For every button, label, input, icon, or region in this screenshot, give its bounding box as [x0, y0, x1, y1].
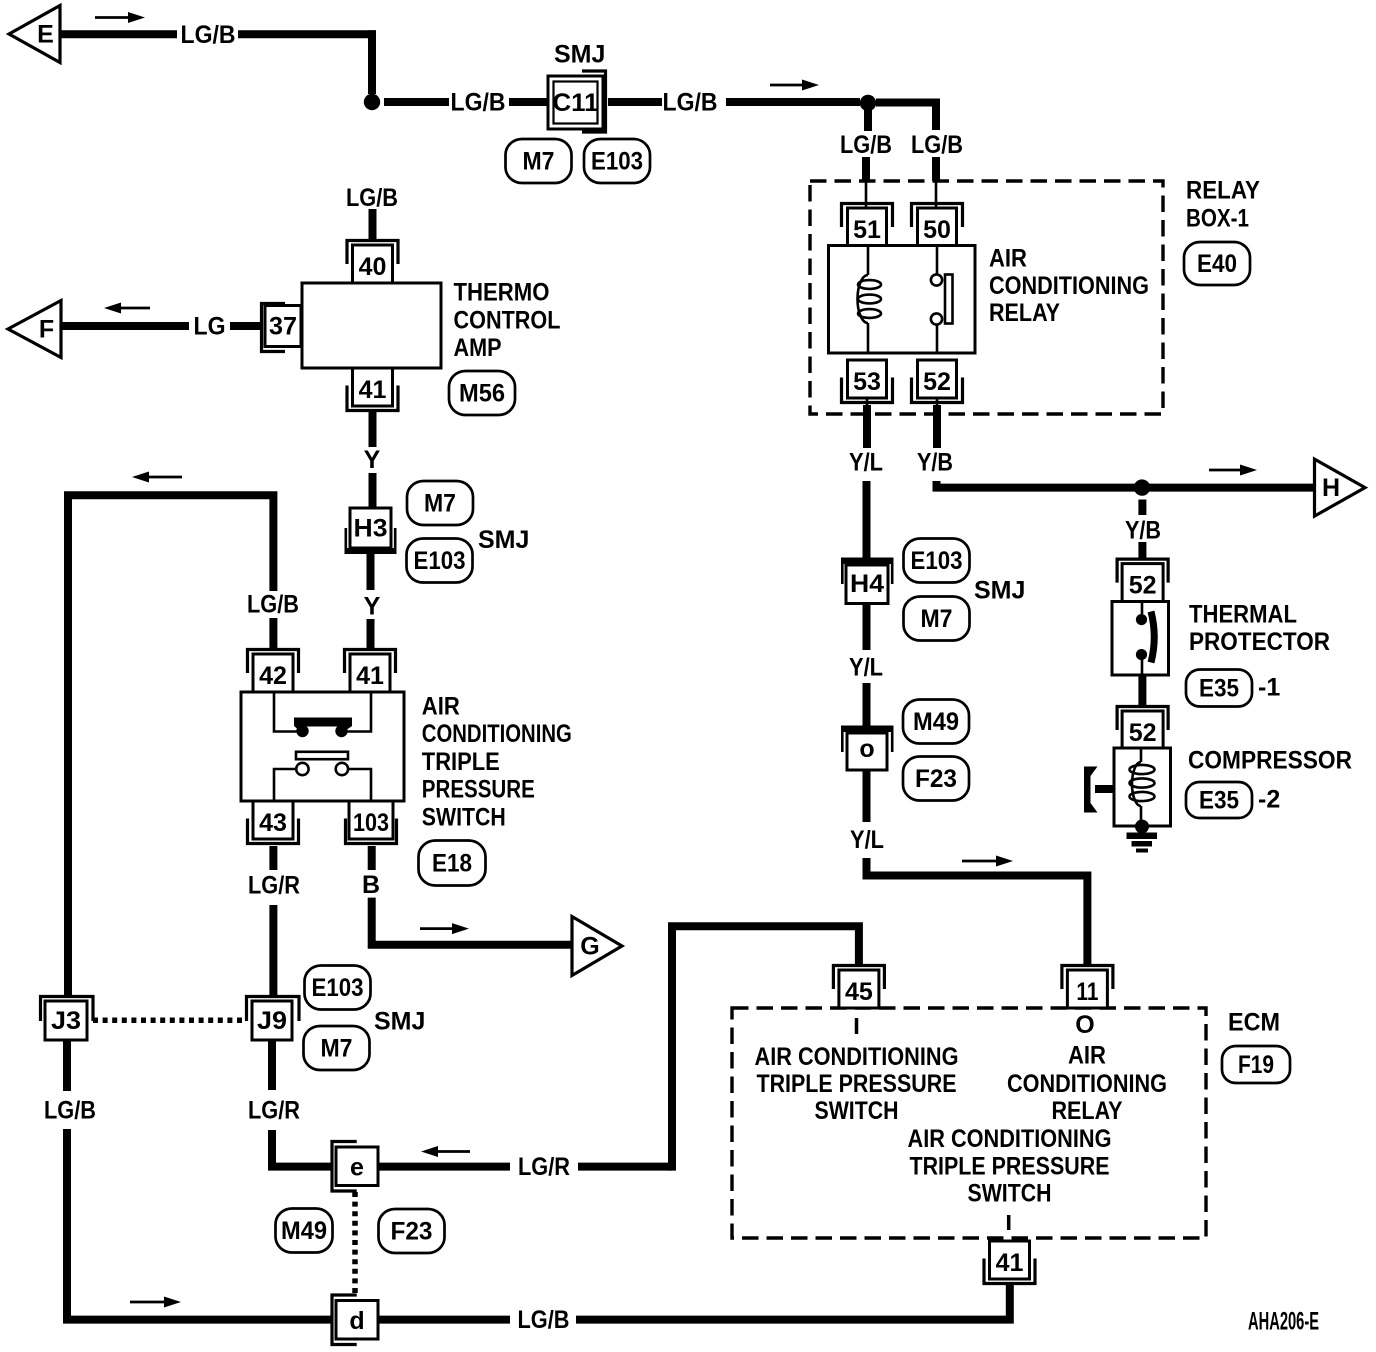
flow arrow left (LG/B loop) [132, 472, 182, 483]
wire Y/L below joint o [863, 770, 871, 822]
svg-text:LG/B: LG/B [518, 1306, 570, 1334]
svg-text:AMP: AMP [454, 334, 502, 362]
svg-text:LG/R: LG/R [248, 872, 300, 900]
relay switch contact [936, 246, 939, 274]
wire stub to relay 51 [864, 108, 872, 131]
connector code oval F23 (o) [903, 757, 969, 801]
connector code oval F19 [1222, 1046, 1290, 1083]
wire LG/R below 43 [269, 846, 277, 870]
flow arrow right (to H) [1209, 465, 1257, 476]
wire Y to pressure switch 41 [367, 619, 375, 649]
svg-text:M49: M49 [281, 1217, 327, 1245]
svg-text:SMJ: SMJ [554, 41, 605, 69]
connector pin 103 (pressure switch) [346, 801, 397, 844]
wire Y below thermo amp [369, 412, 377, 447]
flow arrow right (to d) [130, 1297, 181, 1308]
connector pin 43 (pressure switch) [248, 801, 299, 844]
svg-text:TRIPLE PRESSURE: TRIPLE PRESSURE [757, 1070, 957, 1098]
flow arrow right (to G) [420, 923, 469, 934]
connector pin 50 (relay contact in) [912, 204, 963, 247]
svg-text:C11: C11 [553, 89, 599, 117]
wire Y below H3 [367, 551, 375, 590]
svg-text:E103: E103 [312, 974, 364, 1002]
svg-text:50: 50 [923, 216, 951, 244]
svg-text:PROTECTOR: PROTECTOR [1189, 628, 1330, 656]
connector code oval E103 (H3) [407, 539, 473, 583]
wire LG/R below J9 [268, 1040, 276, 1090]
svg-text:M7: M7 [424, 489, 456, 517]
svg-text:LG/B: LG/B [911, 131, 963, 159]
svg-text:AIR: AIR [1068, 1042, 1106, 1070]
connector code oval M7 (J9) [304, 1026, 370, 1070]
thermo control amp body [302, 283, 441, 368]
connector code oval M7 (H4) [904, 597, 970, 641]
svg-text:J9: J9 [257, 1007, 287, 1035]
svg-text:E35: E35 [1199, 674, 1239, 702]
wire Y/B to page arrow H [937, 481, 1315, 488]
connector pin 53 (relay coil -) [842, 360, 893, 403]
page connector arrow H [1315, 459, 1366, 516]
ground symbol [1135, 820, 1149, 834]
SMJ connector H4 [841, 558, 894, 604]
connector code oval M7 (C11) [506, 139, 572, 183]
svg-text:E103: E103 [414, 547, 466, 575]
svg-text:J3: J3 [51, 1007, 81, 1035]
svg-text:-2: -2 [1258, 786, 1280, 814]
wire Y/L to ECM pin 11 [867, 858, 1088, 964]
relay box-1 dashed enclosure [810, 181, 1163, 414]
joint connector e [332, 1142, 378, 1192]
svg-text:E18: E18 [432, 849, 472, 877]
svg-text:O: O [1075, 1011, 1094, 1039]
svg-text:RELAY: RELAY [1186, 177, 1260, 205]
svg-text:53: 53 [853, 368, 881, 396]
svg-text:AIR: AIR [989, 244, 1027, 272]
connector pin 41 (ECM) [984, 1241, 1035, 1284]
svg-text:52: 52 [1129, 719, 1157, 747]
svg-text:42: 42 [259, 662, 287, 690]
svg-text:G: G [580, 933, 599, 961]
wire LG/B into thermo amp 40 [369, 209, 377, 240]
relay coil [867, 246, 870, 275]
svg-text:41: 41 [996, 1249, 1024, 1277]
svg-text:H: H [1322, 474, 1340, 502]
wire LG/B to joint d [67, 1129, 333, 1320]
svg-text:B: B [362, 871, 380, 899]
svg-text:Y/L: Y/L [849, 449, 883, 477]
svg-text:SMJ: SMJ [974, 577, 1025, 605]
wire stub inside relay box (51) [865, 181, 868, 208]
connector code oval E103 (C11) [584, 139, 650, 183]
svg-text:CONDITIONING: CONDITIONING [989, 272, 1149, 300]
svg-text:AHA206-E: AHA206-E [1248, 1308, 1319, 1336]
svg-text:Y/L: Y/L [849, 654, 883, 682]
svg-text:M49: M49 [913, 708, 959, 736]
connector pin 52 (relay contact out) [912, 360, 963, 403]
wire vertical to junction [368, 30, 376, 94]
wire LG/B into relay box (50) [932, 157, 940, 181]
svg-text:Y/B: Y/B [1125, 516, 1161, 544]
jumper dotted link J3-J9 [93, 1018, 246, 1024]
connector code oval E103 (H4) [904, 539, 970, 583]
wire LG/R to ECM riser [578, 1163, 672, 1171]
wire LG/B to SMJ C11 [384, 98, 449, 106]
wire stub below 53 [866, 398, 869, 407]
svg-text:LG/B: LG/B [840, 131, 892, 159]
svg-text:TRIPLE PRESSURE: TRIPLE PRESSURE [910, 1152, 1110, 1180]
connector code oval E40 [1184, 242, 1250, 285]
wire LG/B into pressure switch 42 [269, 618, 277, 649]
wire LG/R into joint e [272, 1130, 333, 1167]
wire B to page arrow G [372, 898, 572, 945]
wire LG/B to relay junction [726, 98, 860, 106]
connector code oval E35 (-2) [1186, 782, 1252, 818]
joint connector d [332, 1295, 378, 1345]
svg-text:E103: E103 [591, 147, 643, 175]
svg-text:BOX-1: BOX-1 [1186, 205, 1249, 233]
wire LG/B from C11 [608, 98, 662, 106]
svg-text:o: o [859, 735, 874, 763]
svg-text:-1: -1 [1258, 674, 1280, 702]
a/c triple pressure switch body [241, 692, 404, 801]
wire Y/L below relay box [863, 405, 871, 448]
svg-text:RELAY: RELAY [1052, 1097, 1123, 1125]
joint connector J3 [41, 997, 94, 1041]
svg-text:52: 52 [923, 368, 951, 396]
wire Y/L to SMJ H4 [863, 481, 871, 559]
connector code oval F23 (e/d) [379, 1209, 445, 1253]
svg-text:43: 43 [259, 809, 287, 837]
svg-text:LG/B: LG/B [663, 89, 718, 117]
wire LG/R to J9 [269, 905, 277, 996]
page connector arrow E [9, 6, 60, 63]
svg-text:CONTROL: CONTROL [454, 306, 561, 334]
svg-text:CONDITIONING: CONDITIONING [422, 720, 572, 748]
wire Y/L to joint o [863, 683, 871, 727]
svg-text:SWITCH: SWITCH [422, 804, 506, 832]
svg-text:H3: H3 [354, 515, 388, 543]
svg-text:F19: F19 [1238, 1051, 1274, 1079]
svg-text:F: F [39, 316, 54, 344]
page connector arrow G [572, 917, 622, 976]
wire LG/B (right) [238, 30, 376, 38]
pin 41 tick [1007, 1215, 1011, 1230]
thermal protector bimetal contact [1141, 601, 1144, 614]
svg-text:F23: F23 [915, 765, 957, 793]
svg-text:LG/B: LG/B [44, 1097, 96, 1125]
wire Y/L below H4 [863, 604, 871, 651]
connector code oval M49 (o) [903, 700, 969, 744]
junction node LG/B at relay [860, 95, 876, 111]
wire Y to SMJ H3 [369, 473, 377, 509]
svg-text:E40: E40 [1197, 250, 1237, 278]
junction node Y/B [1134, 479, 1150, 495]
connector code oval E35 (-1) [1186, 670, 1252, 707]
svg-text:SMJ: SMJ [374, 1008, 425, 1036]
connector pin 52 (thermal protector) [1117, 559, 1168, 602]
svg-text:SMJ: SMJ [478, 526, 529, 554]
svg-text:E35: E35 [1199, 786, 1239, 814]
joint connector J9 [247, 997, 300, 1041]
junction node LG/B [364, 94, 380, 110]
page connector arrow F [8, 301, 61, 358]
svg-text:F23: F23 [391, 1217, 433, 1245]
svg-text:LG/B: LG/B [181, 21, 236, 49]
wire into C11 [509, 98, 548, 106]
svg-text:41: 41 [356, 662, 384, 690]
svg-text:103: 103 [353, 809, 389, 837]
svg-text:M7: M7 [321, 1034, 353, 1062]
svg-text:LG/B: LG/B [247, 591, 299, 619]
pressure switch lower contact (open) [296, 752, 348, 759]
svg-text:37: 37 [269, 313, 297, 341]
svg-text:LG/B: LG/B [451, 89, 506, 117]
svg-text:45: 45 [845, 978, 873, 1006]
connector pin 42 (pressure switch) [248, 650, 299, 693]
svg-text:LG/R: LG/R [518, 1153, 570, 1181]
wire LG/B to E (left) [60, 30, 177, 38]
connector code oval M7 (H3) [407, 481, 473, 525]
svg-text:CONDITIONING: CONDITIONING [1007, 1070, 1167, 1098]
connector pin 40 (thermo amp) [347, 241, 398, 284]
wire thermal protector to compressor [1138, 675, 1146, 706]
wire stub inside relay box (50) [935, 181, 938, 208]
connector pin 52 (compressor) [1117, 707, 1168, 750]
svg-text:M7: M7 [523, 147, 555, 175]
svg-text:51: 51 [853, 216, 881, 244]
flow arrow right (to ECM 11) [962, 856, 1013, 867]
svg-text:THERMAL: THERMAL [1189, 601, 1297, 629]
svg-text:M7: M7 [921, 605, 953, 633]
svg-text:H4: H4 [850, 570, 884, 598]
svg-text:52: 52 [1129, 571, 1157, 599]
wire LG/B to ECM pin 41 [576, 1285, 1010, 1320]
ECM dashed enclosure [732, 1008, 1206, 1238]
compressor clutch symbol [1084, 767, 1098, 813]
svg-text:M56: M56 [459, 379, 505, 407]
connector code oval E103 (J9) [305, 966, 371, 1010]
joint connector o [841, 726, 894, 771]
svg-text:Y: Y [364, 446, 381, 474]
svg-text:11: 11 [1076, 978, 1098, 1006]
pin 45 input tick [855, 1018, 859, 1034]
connector pin 51 (relay coil +) [842, 204, 893, 247]
wire LG/B from d [378, 1316, 510, 1324]
svg-text:AIR: AIR [422, 692, 460, 720]
svg-text:d: d [349, 1307, 364, 1335]
flow arrow right (E wire) [95, 12, 145, 23]
wire LG/R from e [378, 1163, 510, 1171]
air conditioning relay body [829, 246, 976, 354]
SMJ connector C11 [548, 71, 606, 132]
svg-text:e: e [350, 1154, 364, 1182]
compressor body E35-2 [1114, 748, 1171, 826]
svg-text:Y/B: Y/B [917, 449, 953, 477]
flow arrow right (to relay) [770, 80, 819, 91]
svg-text:SWITCH: SWITCH [815, 1097, 899, 1125]
wire LG/B loop from 42 to J3 [68, 495, 273, 996]
wire LG/B corner to relay 50 [876, 103, 936, 131]
wire LG/R to ECM pin 45 [672, 926, 859, 1170]
svg-text:AIR CONDITIONING: AIR CONDITIONING [908, 1125, 1112, 1153]
connector code oval E18 [419, 841, 486, 886]
connector code oval M49 (e/d) [276, 1209, 333, 1253]
svg-text:Y: Y [364, 593, 381, 621]
svg-text:E103: E103 [911, 547, 963, 575]
compressor motor coil [1140, 748, 1143, 762]
svg-text:LG: LG [194, 313, 226, 341]
svg-text:40: 40 [359, 253, 387, 281]
thermal protector body E35-1 [1112, 602, 1169, 676]
wire Y/B to thermal protector [1138, 542, 1146, 559]
flow arrow left (to F) [104, 303, 150, 314]
svg-text:THERMO: THERMO [454, 279, 550, 307]
connector pin 11 (ECM) [1062, 966, 1113, 1009]
svg-text:LG/R: LG/R [248, 1097, 300, 1125]
flow arrow left (to e) [421, 1146, 470, 1157]
SMJ connector H3 [345, 508, 397, 554]
wire LG/B below J3 [63, 1040, 71, 1091]
svg-text:SWITCH: SWITCH [968, 1179, 1052, 1207]
pressure switch upper contact (closed) [274, 692, 297, 732]
svg-text:ECM: ECM [1228, 1008, 1280, 1036]
jumper dotted link e-d [352, 1192, 358, 1296]
wire LG to F [61, 322, 189, 330]
wire LG into 37 [230, 322, 261, 330]
connector pin 41 (thermo amp) [347, 368, 398, 411]
svg-text:TRIPLE: TRIPLE [422, 748, 500, 776]
wire Y/B below relay box [933, 405, 941, 448]
connector pin 37 (thermo amp) [262, 304, 302, 352]
svg-text:LG/B: LG/B [346, 184, 398, 212]
connector pin 45 (ECM) [833, 966, 884, 1009]
svg-text:COMPRESSOR: COMPRESSOR [1188, 746, 1352, 774]
wire Y/B dashed drop [1138, 500, 1146, 516]
wire B below 103 [368, 846, 376, 870]
wire stub below 52 [936, 398, 939, 407]
connector code oval M56 [449, 371, 515, 415]
svg-text:Y/L: Y/L [850, 826, 884, 854]
svg-text:AIR CONDITIONING: AIR CONDITIONING [755, 1043, 959, 1071]
svg-text:E: E [37, 21, 54, 49]
svg-text:PRESSURE: PRESSURE [422, 776, 535, 804]
svg-text:41: 41 [359, 376, 387, 404]
connector pin 41 (pressure switch) [345, 650, 396, 693]
svg-text:RELAY: RELAY [989, 299, 1060, 327]
wire LG/B into relay box (51) [862, 157, 870, 181]
